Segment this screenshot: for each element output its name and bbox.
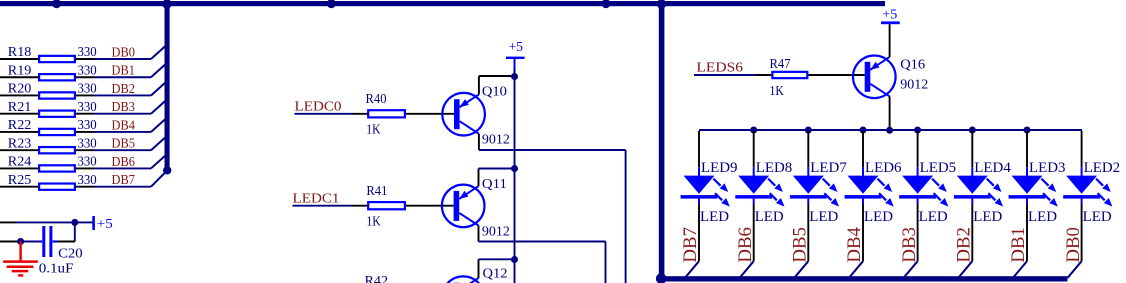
wire: +5 wire (navy segment) xyxy=(17,221,93,223)
transistor Q12 (PNP, clipped) xyxy=(442,276,485,283)
svg-text:LED: LED xyxy=(919,209,948,225)
transistor Q10 (PNP 9012) xyxy=(442,93,485,136)
resistor R40 xyxy=(368,110,405,117)
label: part LED of LED3 xyxy=(1028,209,1057,225)
svg-text:LED: LED xyxy=(700,209,729,225)
label: designator LED4 xyxy=(974,160,1011,176)
resistor R22 xyxy=(39,129,75,135)
resistor R25 xyxy=(39,184,75,190)
wire: right bus vertical xyxy=(659,2,665,282)
label: designator R41 xyxy=(366,184,387,199)
label: designator Q16 xyxy=(900,58,925,73)
ground symbol xyxy=(3,242,38,276)
LED LED5 (diode symbol with arrows) xyxy=(899,167,948,206)
wire: Q11 emitter to +5 rail xyxy=(479,168,515,170)
wire: LEDC1 to R41 xyxy=(352,205,454,207)
svg-text:DB1: DB1 xyxy=(112,64,135,79)
svg-text:C20: C20 xyxy=(58,246,83,261)
svg-text:Q10: Q10 xyxy=(482,84,507,99)
svg-text:+5: +5 xyxy=(882,7,897,22)
wire: bus entry slash DB7 xyxy=(151,171,167,187)
label: part LED of LED5 xyxy=(919,209,948,225)
svg-text:R42: R42 xyxy=(365,274,389,283)
wire: Q10 emitter up xyxy=(478,76,480,95)
wire: bus entry slash DB6 xyxy=(740,261,754,278)
wire: LED8 cathode down xyxy=(753,205,755,262)
label: designator LED6 xyxy=(865,160,902,176)
svg-text:330: 330 xyxy=(78,136,97,151)
node DB5 net label xyxy=(112,137,135,152)
svg-text:+5: +5 xyxy=(97,217,113,232)
svg-text:Q11: Q11 xyxy=(482,177,507,192)
LED LED3 (diode symbol with arrows) xyxy=(1009,167,1058,206)
wire: bus entry slash DB0 xyxy=(1068,261,1082,278)
svg-text:LED: LED xyxy=(1028,209,1057,225)
power +5 above Q16 xyxy=(881,21,900,24)
label: designator R20 xyxy=(8,82,32,97)
svg-text:DB3: DB3 xyxy=(899,227,920,263)
wire: DB0 net wire xyxy=(94,58,151,60)
wire: rail down to LED5 xyxy=(917,131,919,167)
svg-text:R21: R21 xyxy=(8,100,32,115)
wire: input to R20 xyxy=(0,94,94,96)
node DB4 net label xyxy=(112,118,135,133)
node DB2 net label (rotated) xyxy=(954,227,975,263)
wire: LEDC0 net wire xyxy=(295,113,352,115)
wire: +5 emitter rail vertical xyxy=(514,76,516,283)
node DB7 net label xyxy=(112,173,135,188)
svg-text:DB2: DB2 xyxy=(954,227,975,263)
label: designator R22 xyxy=(8,118,32,133)
label: +5 text above Q16 xyxy=(882,7,897,22)
label: part 9012 of Q16 xyxy=(900,77,928,92)
svg-text:R20: R20 xyxy=(8,82,32,97)
resistor R18 xyxy=(39,56,75,62)
svg-text:DB2: DB2 xyxy=(112,82,135,97)
wire: input to R18 xyxy=(0,58,94,60)
wire: DB4 net wire xyxy=(94,131,151,133)
wire: input to R25 xyxy=(0,186,94,188)
wire: bus entry slash DB1 xyxy=(1013,261,1027,278)
svg-text:DB0: DB0 xyxy=(112,45,135,60)
wire: rail down to LED8 xyxy=(753,131,755,167)
LED LED2 (diode symbol with arrows) xyxy=(1063,167,1112,206)
node: junction Q12 emitter xyxy=(511,256,518,263)
svg-text:Q16: Q16 xyxy=(900,58,925,73)
label: designator R21 xyxy=(8,100,32,115)
node: junction rail / LED4 xyxy=(969,127,976,134)
wire: input to R22 xyxy=(0,131,94,133)
svg-text:R40: R40 xyxy=(366,92,387,107)
svg-text:LED9: LED9 xyxy=(701,160,738,176)
svg-text:LEDC1: LEDC1 xyxy=(293,192,340,207)
node LEDC0 net label xyxy=(295,100,342,115)
label: part LED of LED6 xyxy=(864,209,893,225)
label: part 9012 of Q10 xyxy=(482,132,510,147)
svg-text:DB7: DB7 xyxy=(680,227,701,263)
node: junction rail / LED6 xyxy=(860,127,867,134)
label: designator R24 xyxy=(8,155,32,170)
label: designator R18 xyxy=(8,45,32,60)
label: designator LED3 xyxy=(1029,160,1066,176)
svg-text:DB0: DB0 xyxy=(1063,227,1084,263)
wire: Q10 collector down xyxy=(478,134,480,150)
svg-text:R41: R41 xyxy=(366,184,387,199)
svg-text:Q12: Q12 xyxy=(483,266,508,281)
label: part LED of LED8 xyxy=(755,209,784,225)
svg-text:330: 330 xyxy=(78,173,97,188)
wire: Q10 collector horizontal xyxy=(479,149,626,151)
label: designator LED5 xyxy=(920,160,957,176)
resistor R20 xyxy=(39,92,75,98)
svg-text:330: 330 xyxy=(78,155,97,170)
node: junction rail / LED8 xyxy=(750,127,757,134)
wire: GND wire to C20 xyxy=(0,241,21,243)
label: +5 text above Q10 xyxy=(509,40,524,55)
wire: bus entry slash DB5 xyxy=(151,137,166,151)
wire: input to R19 xyxy=(0,76,94,78)
svg-text:LED6: LED6 xyxy=(865,160,902,176)
svg-text:DB1: DB1 xyxy=(1008,227,1029,263)
wire: rail down to LED7 xyxy=(807,131,809,167)
LED LED8 (diode symbol with arrows) xyxy=(735,167,784,206)
resistor R24 xyxy=(39,165,75,171)
wire: LED6 cathode down xyxy=(862,205,864,262)
label: designator LED9 xyxy=(701,160,738,176)
wire: +5 wire to C20 xyxy=(0,221,17,223)
svg-text:LED5: LED5 xyxy=(920,160,957,176)
svg-text:0.1uF: 0.1uF xyxy=(39,262,74,277)
svg-text:LED3: LED3 xyxy=(1029,160,1066,176)
wire: bus entry slash DB1 xyxy=(151,64,166,77)
label: value 0.1uF of C20 xyxy=(39,262,74,277)
wire: LEDS6 to R47 xyxy=(755,74,771,76)
wire: R47 to Q16 base xyxy=(808,74,864,76)
wire: Q12 emitter to +5 rail xyxy=(479,258,515,260)
node: junction top bus / right bus xyxy=(657,0,666,9)
svg-text:LED: LED xyxy=(755,209,784,225)
wire: DB1 net wire xyxy=(94,76,151,78)
svg-text:330: 330 xyxy=(78,45,97,60)
svg-text:330: 330 xyxy=(78,100,97,115)
node: junction Q10 emitter xyxy=(511,73,518,80)
wire: bus entry slash DB7 xyxy=(685,261,699,278)
wire: bus entry slash DB5 xyxy=(794,261,808,278)
node DB6 net label (rotated) xyxy=(735,227,756,263)
svg-text:LEDC0: LEDC0 xyxy=(295,100,342,115)
svg-text:LED7: LED7 xyxy=(810,160,847,176)
svg-text:330: 330 xyxy=(78,82,97,97)
node: junction on top bus xyxy=(52,0,61,8)
node: junction on top bus xyxy=(602,0,611,8)
node LEDS6 net label xyxy=(696,61,743,76)
label: designator LED8 xyxy=(756,160,793,176)
label: value 1K of R41 xyxy=(366,214,380,229)
transistor Q11 (PNP 9012) xyxy=(442,185,485,228)
resistor R19 xyxy=(39,74,75,80)
wire: Q12 emitter up xyxy=(478,259,480,278)
label: value 330 of R22 xyxy=(78,118,97,133)
wire: input to R21 xyxy=(0,113,94,115)
label: value 330 of R23 xyxy=(78,136,97,151)
node DB5 net label (rotated) xyxy=(790,227,811,263)
node DB0 net label (rotated) xyxy=(1063,227,1084,263)
svg-text:R25: R25 xyxy=(8,173,32,188)
node DB3 net label xyxy=(112,100,135,115)
node: junction rail / LED3 xyxy=(1024,127,1031,134)
label: value 330 of R24 xyxy=(78,155,97,170)
wire: GND wire navy segment xyxy=(21,241,39,243)
wire: LEDC0 to R40 xyxy=(352,113,455,115)
wire: left DB bus vertical xyxy=(165,2,170,171)
wire: rail down to LED3 xyxy=(1026,131,1028,167)
wire: bus entry slash DB4 xyxy=(849,261,863,278)
power +5 above Q10 xyxy=(506,57,525,76)
wire: bus entry slash DB0 xyxy=(151,46,166,60)
resistor R47 xyxy=(772,72,807,78)
node: junction top bus / left DB bus xyxy=(162,0,171,9)
label: value 330 of R25 xyxy=(78,173,97,188)
svg-text:R23: R23 xyxy=(8,136,32,151)
wire: +5V top bus xyxy=(0,1,885,6)
svg-text:DB5: DB5 xyxy=(112,137,135,152)
node LEDC1 net label xyxy=(293,192,340,207)
svg-text:330: 330 xyxy=(78,63,97,78)
node: bottom of left DB bus xyxy=(163,166,171,174)
label: part LED of LED9 xyxy=(700,209,729,225)
wire: LED5 cathode down xyxy=(917,205,919,262)
node DB6 net label xyxy=(112,155,135,170)
node DB2 net label xyxy=(112,82,135,97)
wire: DB3 net wire xyxy=(94,113,151,115)
label: part LED of LED2 xyxy=(1083,209,1112,225)
label: designator R23 xyxy=(8,136,32,151)
label: designator LED2 xyxy=(1084,160,1121,176)
svg-text:DB6: DB6 xyxy=(112,155,135,170)
label: designator LED7 xyxy=(810,160,847,176)
label: designator R19 xyxy=(8,63,32,78)
wire: LEDS6 net wire xyxy=(694,74,755,76)
svg-text:LED8: LED8 xyxy=(756,160,793,176)
label: part LED of LED7 xyxy=(809,209,838,225)
svg-text:LED: LED xyxy=(1083,209,1112,225)
svg-text:9012: 9012 xyxy=(482,225,510,240)
capacitor C20 xyxy=(39,226,58,257)
svg-text:DB3: DB3 xyxy=(112,100,135,115)
wire: rail down to LED6 xyxy=(862,131,864,167)
label: value 330 of R18 xyxy=(78,45,97,60)
wire: C20 right plate to junction xyxy=(57,241,74,243)
node: junction Q16 collector / LED rail xyxy=(886,127,893,134)
label: value 1K of R47 xyxy=(770,84,784,99)
wire: DB5 net wire xyxy=(94,149,151,151)
node: junction rail / LED5 xyxy=(914,127,921,134)
label: designator R25 xyxy=(8,173,32,188)
wire: Q11 emitter up xyxy=(478,169,480,187)
wire: rail down to LED2 xyxy=(1081,131,1083,167)
svg-text:+5: +5 xyxy=(509,40,524,55)
svg-text:DB4: DB4 xyxy=(112,118,135,133)
wire: bus entry slash DB4 xyxy=(151,118,166,132)
wire: LED7 cathode down xyxy=(807,205,809,262)
wire: LED4 cathode down xyxy=(971,205,973,262)
svg-text:R24: R24 xyxy=(8,155,32,170)
svg-text:DB5: DB5 xyxy=(790,227,811,263)
LED LED6 (diode symbol with arrows) xyxy=(845,167,894,206)
wire: bus entry slash DB6 xyxy=(151,155,166,169)
wire: DB7 net wire xyxy=(94,186,151,188)
svg-text:330: 330 xyxy=(78,118,97,133)
resistor R21 xyxy=(39,111,75,117)
label: value 1K of R40 xyxy=(366,123,380,138)
node: junction Q11 emitter xyxy=(511,165,518,172)
wire: LEDC1 net wire xyxy=(293,205,352,207)
resistor R41 xyxy=(368,202,405,209)
label: designator Q12 xyxy=(483,266,508,281)
node DB4 net label (rotated) xyxy=(844,227,865,263)
transistor Q16 (PNP 9012) xyxy=(853,56,896,99)
svg-text:1K: 1K xyxy=(770,84,784,99)
label: value 330 of R19 xyxy=(78,63,97,78)
wire: junction down to C20 xyxy=(74,222,76,241)
wire: LED2 cathode down xyxy=(1081,205,1083,262)
svg-text:LEDS6: LEDS6 xyxy=(696,61,743,76)
wire: Q10 collector vertical down xyxy=(625,150,627,283)
svg-text:1K: 1K xyxy=(366,123,380,138)
LED LED4 (diode symbol with arrows) xyxy=(954,167,1003,206)
label: designator Q11 xyxy=(482,177,507,192)
node DB1 net label xyxy=(112,64,135,79)
node DB0 net label xyxy=(112,45,135,60)
label: designator C20 xyxy=(58,246,83,261)
wire: bottom DB bus horizontal xyxy=(659,276,1068,281)
label: designator R47 xyxy=(770,57,791,72)
node: junction at C20 top xyxy=(71,219,78,226)
node: corner junction of right/bottom bus xyxy=(656,273,667,283)
wire: input to R24 xyxy=(0,167,94,169)
node: junction on top bus xyxy=(327,0,336,8)
label: designator Q10 xyxy=(482,84,507,99)
wire: Q11 collector vertical down xyxy=(605,242,607,283)
node DB3 net label (rotated) xyxy=(899,227,920,263)
svg-text:R19: R19 xyxy=(8,63,32,78)
wire: LED9 cathode down xyxy=(698,205,700,262)
svg-text:9012: 9012 xyxy=(900,77,928,92)
wire: Q10 emitter to +5 rail xyxy=(479,75,515,77)
label: designator R42 (clipped) xyxy=(365,274,389,283)
wire: bus entry slash DB2 xyxy=(151,82,166,96)
svg-text:LED: LED xyxy=(864,209,893,225)
power +5 port (horizontal bar) xyxy=(92,216,95,230)
wire: LED anode rail xyxy=(699,129,1082,131)
label: designator R40 xyxy=(366,92,387,107)
svg-text:DB6: DB6 xyxy=(735,227,756,263)
svg-text:R22: R22 xyxy=(8,118,32,133)
label: value 330 of R20 xyxy=(78,82,97,97)
node: junction rail / LED7 xyxy=(805,127,812,134)
wire: bus entry slash DB3 xyxy=(904,261,918,278)
LED LED9 (diode symbol with arrows) xyxy=(681,167,730,206)
svg-text:LED4: LED4 xyxy=(974,160,1011,176)
svg-text:DB7: DB7 xyxy=(112,173,135,188)
resistor R23 xyxy=(39,147,75,153)
node DB7 net label (rotated) xyxy=(680,227,701,263)
LED LED7 (diode symbol with arrows) xyxy=(790,167,839,206)
svg-text:9012: 9012 xyxy=(482,132,510,147)
svg-text:R18: R18 xyxy=(8,45,32,60)
wire: Q16 collector down to LED rail xyxy=(889,96,891,130)
wire: Q11 collector down xyxy=(478,226,480,242)
label: part LED of LED4 xyxy=(973,209,1002,225)
wire: LED3 cathode down xyxy=(1026,205,1028,262)
svg-text:1K: 1K xyxy=(366,214,380,229)
svg-text:DB4: DB4 xyxy=(844,227,865,263)
label: part 9012 of Q11 xyxy=(482,225,510,240)
wire: DB6 net wire xyxy=(94,167,151,169)
label: +5 text xyxy=(97,217,113,232)
wire: rail down to LED9 xyxy=(698,131,700,167)
wire: bus entry slash DB3 xyxy=(151,100,166,114)
node DB1 net label (rotated) xyxy=(1008,227,1029,263)
wire: rail down to LED4 xyxy=(971,131,973,167)
wire: DB2 net wire xyxy=(94,94,151,96)
wire: Q11 collector horizontal xyxy=(479,241,606,243)
svg-text:LED: LED xyxy=(809,209,838,225)
wire: Q16 emitter up to +5 xyxy=(889,24,891,57)
wire: bus entry slash DB2 xyxy=(958,261,972,278)
wire: input to R23 xyxy=(0,149,94,151)
svg-text:LED2: LED2 xyxy=(1084,160,1121,176)
label: value 330 of R21 xyxy=(78,100,97,115)
node: junction at GND xyxy=(17,238,24,245)
svg-text:LED: LED xyxy=(973,209,1002,225)
svg-text:R47: R47 xyxy=(770,57,791,72)
